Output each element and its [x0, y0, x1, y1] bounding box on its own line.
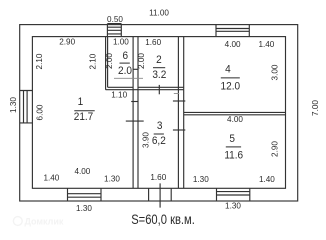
- svg-text:2.10: 2.10: [87, 53, 97, 69]
- door tick wall 1/3 lower: [126, 120, 144, 122]
- svg-text:2.00: 2.00: [136, 53, 146, 69]
- room 6 label: [118, 51, 132, 77]
- svg-text:11.6: 11.6: [224, 150, 243, 161]
- svg-text:4.00: 4.00: [74, 166, 90, 176]
- wall rooms2,3/rooms4,5: [178, 37, 183, 189]
- svg-text:0.50: 0.50: [107, 14, 123, 24]
- svg-text:1.10: 1.10: [111, 89, 127, 99]
- svg-text:6: 6: [123, 51, 129, 62]
- light tick wall 2/4: [174, 93, 179, 95]
- svg-text:2.90: 2.90: [59, 36, 75, 46]
- svg-text:2.90: 2.90: [269, 141, 279, 157]
- door tick wall 1/3: [131, 101, 138, 103]
- wall room4/room5: [184, 112, 286, 114]
- window bottom-right wall: [217, 188, 250, 201]
- svg-text:S=60,0 кв.м.: S=60,0 кв.м.: [131, 212, 195, 227]
- svg-text:2.10: 2.10: [34, 53, 44, 69]
- svg-text:3.90: 3.90: [140, 132, 150, 148]
- chimney 0.50: [107, 24, 121, 37]
- svg-text:3: 3: [157, 121, 163, 132]
- room 2 label: [152, 55, 166, 81]
- svg-text:4.00: 4.00: [227, 114, 243, 124]
- svg-text:21.7: 21.7: [74, 112, 94, 123]
- svg-text:1.40: 1.40: [43, 172, 59, 182]
- svg-text:1.00: 1.00: [113, 36, 129, 46]
- window left wall: [20, 91, 33, 123]
- svg-text:1.30: 1.30: [193, 174, 209, 184]
- svg-text:6.00: 6.00: [34, 104, 44, 120]
- svg-text:1: 1: [78, 97, 84, 108]
- door tick wall 2/3: [158, 85, 160, 94]
- svg-text:2.0: 2.0: [118, 66, 132, 77]
- svg-text:6,2: 6,2: [152, 136, 166, 147]
- svg-text:1.40: 1.40: [258, 39, 274, 49]
- door tick wall 3/5: [173, 129, 185, 131]
- room 5 label: [224, 134, 243, 162]
- room 3 label: [152, 121, 166, 147]
- svg-text:11.00: 11.00: [149, 7, 169, 17]
- room number labels: [74, 51, 244, 162]
- svg-text:1.60: 1.60: [150, 172, 166, 182]
- svg-text:1.60: 1.60: [145, 37, 161, 47]
- door tick wall 3/4: [173, 100, 185, 102]
- svg-text:4: 4: [225, 64, 231, 75]
- svg-text:2.00: 2.00: [104, 53, 114, 69]
- svg-text:1.40: 1.40: [259, 174, 275, 184]
- wall rooms6,1/rooms2,3: [133, 37, 138, 189]
- svg-text:2: 2: [156, 55, 162, 66]
- window bottom-left wall: [68, 188, 102, 201]
- room 1 label: [74, 97, 95, 123]
- outer wall: [20, 25, 298, 201]
- room 4 label: [221, 64, 241, 92]
- svg-text:7.00: 7.00: [310, 100, 320, 116]
- svg-text:1.30: 1.30: [104, 173, 120, 183]
- wall room6 bottom: [106, 87, 138, 89]
- svg-text:1.30: 1.30: [8, 97, 18, 113]
- window top-right wall: [216, 25, 249, 37]
- svg-text:Домклик: Домклик: [25, 217, 64, 227]
- light tick wall 1/3 upper: [114, 77, 143, 79]
- svg-text:1.30: 1.30: [76, 203, 92, 213]
- svg-text:5: 5: [229, 134, 235, 145]
- inner wall boundary: [32, 37, 285, 189]
- svg-text:12.0: 12.0: [221, 81, 241, 92]
- wall room2/room3: [138, 87, 184, 89]
- entry door bottom wall: [149, 183, 172, 207]
- svg-text:3.2: 3.2: [152, 70, 166, 81]
- watermark logo: [13, 217, 64, 227]
- door tick wall 6/2: [133, 68, 139, 70]
- svg-text:4.00: 4.00: [225, 39, 241, 49]
- wall room1/room6: [106, 37, 108, 90]
- svg-text:3.00: 3.00: [269, 64, 279, 80]
- svg-text:1.30: 1.30: [225, 200, 241, 210]
